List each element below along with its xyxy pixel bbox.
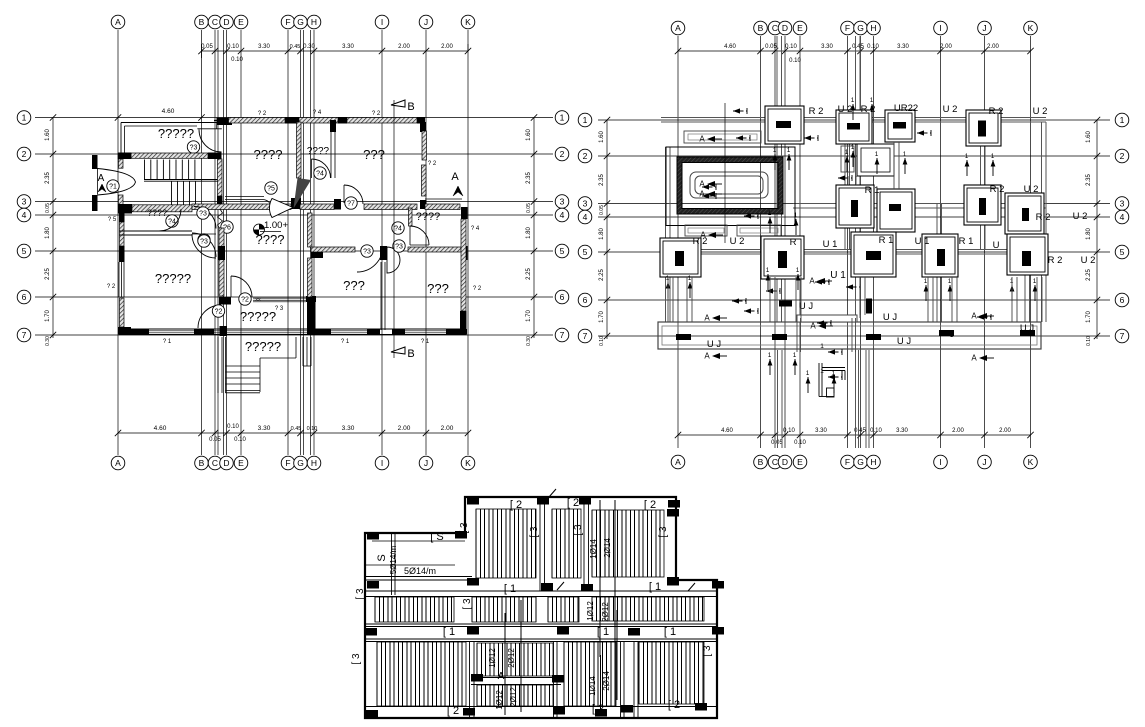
door 3a circle [197, 207, 209, 219]
slab column block [455, 531, 467, 539]
grid bubble E top (right plan) [793, 21, 807, 35]
grid bubble 5 left (left plan) [17, 244, 31, 258]
left wall window [118, 262, 120, 297]
grid row line 2 (right plan) [598, 155, 1110, 157]
svg-text:? 1: ? 1 [421, 339, 430, 345]
svg-text:1: 1 [560, 113, 565, 123]
wall band H-I hatch [364, 204, 417, 210]
wall band column G [291, 198, 301, 209]
svg-text:A: A [699, 135, 705, 144]
svg-text:?3: ?3 [363, 248, 371, 255]
wall x420 column top [420, 122, 426, 132]
svg-text:0.10: 0.10 [870, 428, 882, 434]
svg-text:? 2: ? 2 [107, 284, 116, 290]
grid bubble G top (right plan) [854, 21, 868, 35]
beam v bottom a [469, 641, 471, 718]
svg-text:?3: ?3 [395, 243, 403, 250]
svg-text:[ S: [ S [430, 531, 443, 543]
grid bubble I top (left plan) [375, 15, 389, 29]
svg-text:2Ø14: 2Ø14 [602, 671, 611, 691]
grid bubble K bottom (right plan) [1024, 455, 1038, 469]
svg-text:?3: ?3 [199, 210, 207, 217]
stair bottom wall hatch [132, 205, 192, 212]
arrow up 1 [846, 156, 848, 172]
svg-text:2Ø12: 2Ø12 [507, 648, 516, 668]
wing top inner [372, 540, 465, 542]
grid bubble 2 right (right plan) [1115, 149, 1129, 163]
svg-text:????: ???? [256, 232, 285, 247]
svg-text:2: 2 [560, 149, 565, 159]
door 2a circle [212, 305, 224, 317]
svg-text:?4: ?4 [394, 225, 402, 232]
svg-text:U 2: U 2 [838, 104, 853, 115]
grid bubble 1 right (right plan) [1115, 113, 1129, 127]
grid bubble G bottom (right plan) [854, 455, 868, 469]
svg-text:0.10: 0.10 [227, 44, 239, 50]
arrow up 1 [794, 359, 796, 375]
svg-text:H: H [311, 458, 317, 468]
grid bubble 2 left (left plan) [17, 147, 31, 161]
svg-text:R 2: R 2 [1036, 212, 1051, 223]
grid bubble 5 left (right plan) [578, 245, 592, 259]
dash arrow left [815, 281, 829, 283]
svg-text:[ 1: [ 1 [597, 626, 609, 638]
arrow up 1 [667, 282, 669, 298]
grid bubble 4 right (right plan) [1115, 210, 1129, 224]
svg-text:H: H [311, 17, 317, 27]
svg-text:1: 1 [768, 210, 772, 217]
door 014 circle 4 [392, 222, 404, 234]
door 3c circle [361, 245, 373, 257]
grid row line 7 (right plan) [598, 335, 1110, 337]
svg-text:S: S [376, 554, 388, 561]
dash arrow left [732, 300, 746, 302]
svg-text:?????: ????? [240, 309, 276, 324]
grid bubble H bottom (left plan) [307, 456, 321, 470]
P6 border [548, 597, 579, 622]
rebar line a [599, 500, 601, 657]
terrace circle 3 [187, 141, 199, 153]
grid bubble A bottom (left plan) [111, 456, 125, 470]
svg-text:D: D [782, 23, 788, 33]
svg-text:C: C [772, 23, 778, 33]
shaft wall projection lines C-D [217, 30, 219, 455]
top wall column F [285, 117, 299, 124]
bottom wall window c [331, 330, 367, 332]
svg-text:1.70: 1.70 [1086, 311, 1092, 323]
strip col F [844, 122, 846, 249]
wall y231 [119, 230, 192, 232]
section line B [393, 100, 395, 358]
stair arrows [807, 377, 809, 393]
door 014 arc [410, 226, 429, 245]
top wall hatch D-F [229, 118, 286, 124]
slab column block [667, 577, 679, 585]
grid bubble 3 left (right plan) [578, 197, 592, 211]
svg-text:U 2: U 2 [1033, 106, 1048, 117]
bottom wall col d [367, 329, 380, 335]
svg-text:?1: ?1 [109, 183, 117, 190]
arrow up 1 [852, 151, 854, 167]
rebar line f [616, 610, 618, 700]
svg-text:[ 1: [ 1 [649, 581, 661, 593]
arrow up 1 [797, 274, 799, 290]
grid bubble F top (right plan) [841, 21, 855, 35]
svg-text:4: 4 [583, 212, 588, 222]
svg-text:5: 5 [583, 247, 588, 257]
strip band row7 [658, 322, 1041, 349]
svg-text:2.00: 2.00 [999, 428, 1011, 434]
top exterior wall [214, 120, 424, 122]
slab hatch P7 [592, 597, 703, 621]
svg-text:U 2: U 2 [1024, 184, 1039, 195]
right wall column bottom [460, 311, 467, 334]
slab hatch P9b [477, 685, 549, 706]
svg-text:???: ??? [343, 278, 365, 293]
door 2b circle [239, 293, 251, 305]
svg-text:3: 3 [22, 197, 27, 207]
svg-text:3.30: 3.30 [896, 428, 908, 434]
left wall column r5 [119, 246, 125, 262]
svg-text:[ 2: [ 2 [567, 497, 579, 509]
section arrow A [979, 355, 987, 361]
svg-text:A: A [699, 190, 705, 199]
door 2a arc [198, 305, 221, 328]
svg-text:U J: U J [897, 336, 912, 347]
beam v bottom d [633, 641, 635, 718]
footing R2 row3 J [964, 185, 1001, 225]
dash arrow left [817, 322, 831, 324]
svg-text:R 2: R 2 [989, 106, 1004, 117]
slab hatch P9 [477, 643, 549, 676]
svg-text:?????: ????? [245, 339, 281, 354]
P9 border [477, 643, 553, 676]
core bottom strip2 [737, 225, 781, 236]
svg-text:0.05: 0.05 [45, 203, 51, 213]
svg-text:1.60: 1.60 [45, 129, 51, 141]
section arrow A [712, 315, 720, 321]
slab column block [668, 500, 680, 508]
footing U2 row1 F [836, 110, 872, 144]
svg-text:R 2: R 2 [1048, 255, 1063, 266]
svg-text:1: 1 [806, 370, 810, 377]
strip band notch [797, 315, 857, 322]
arrow up 1 [769, 359, 771, 375]
svg-text:1.70: 1.70 [45, 310, 51, 322]
core inner racetrack [690, 172, 768, 198]
wall band column J2 [420, 200, 427, 209]
section arrow A [707, 191, 715, 197]
svg-text:F: F [285, 17, 290, 27]
left wall hatch a [120, 222, 125, 246]
grid row line 5 (left plan) [35, 250, 553, 252]
arrow up 1 [904, 158, 906, 174]
door 4 arc [312, 159, 331, 178]
svg-text:0.10: 0.10 [794, 440, 806, 446]
svg-text:A: A [704, 352, 710, 361]
svg-text:I: I [939, 457, 941, 467]
svg-text:2: 2 [22, 149, 27, 159]
grid bubble F top (left plan) [281, 15, 295, 29]
svg-text:[ 2: [ 2 [510, 499, 522, 511]
svg-text:5: 5 [1120, 247, 1125, 257]
strip col K [1024, 203, 1026, 322]
slab column block [471, 674, 483, 682]
strip col CD [776, 36, 778, 322]
svg-text:7: 7 [22, 330, 27, 340]
svg-text:xx: xx [256, 297, 262, 303]
arrow up 1 [966, 160, 968, 176]
svg-text:K: K [465, 17, 471, 27]
svg-text:0.30: 0.30 [303, 44, 315, 50]
svg-text:?????: ????? [155, 271, 191, 286]
dash arrow left [744, 215, 758, 217]
svg-text:3.30: 3.30 [342, 44, 354, 50]
grid line I (right plan) [940, 36, 942, 448]
dash arrow left [744, 310, 758, 312]
slab hatch P5 [472, 597, 536, 622]
svg-text:1.80: 1.80 [599, 228, 605, 240]
grid bubble C bottom (left plan) [208, 456, 222, 470]
svg-text:0.10: 0.10 [789, 58, 801, 64]
wall H lower hatch [308, 258, 313, 297]
top wall hatch F-H [299, 118, 338, 124]
svg-text:1.60: 1.60 [599, 131, 605, 143]
band column bar [772, 334, 787, 340]
footing R2 row1 D [765, 106, 804, 144]
grid line F (right plan) [847, 36, 849, 448]
grid bubble 4 right (left plan) [555, 208, 569, 222]
svg-text:0.10: 0.10 [785, 44, 797, 50]
svg-text:A: A [675, 23, 681, 33]
arrow up 1 [767, 274, 769, 290]
svg-text:0.45: 0.45 [854, 428, 866, 434]
wall row6 column [306, 296, 316, 302]
svg-text:4.60: 4.60 [154, 425, 167, 432]
svg-text:1: 1 [965, 153, 969, 160]
svg-text:1.60: 1.60 [526, 129, 532, 141]
strip col GH [855, 36, 857, 318]
grid bubble I bottom (right plan) [934, 455, 948, 469]
svg-text:2Ø14: 2Ø14 [603, 538, 612, 558]
grid bubble 6 right (right plan) [1115, 293, 1129, 307]
grid bubble C top (right plan) [768, 21, 782, 35]
svg-text:A: A [971, 354, 977, 363]
stub below F10 [667, 277, 669, 322]
wall y249 left hatch [311, 247, 355, 252]
svg-text:0.05: 0.05 [599, 205, 605, 215]
section arrow A [707, 181, 715, 187]
arrow up 1 [852, 104, 854, 120]
svg-text:6: 6 [560, 292, 565, 302]
svg-text:U 2: U 2 [943, 104, 958, 115]
svg-text:1: 1 [583, 115, 588, 125]
svg-text:0.45: 0.45 [290, 44, 301, 50]
svg-text:[ 3: [ 3 [529, 526, 540, 538]
svg-text:A: A [115, 458, 121, 468]
grid row line 6 (left plan) [35, 296, 553, 298]
beam v2 top block [583, 497, 585, 591]
svg-text:7: 7 [1120, 331, 1125, 341]
rebar line d [520, 600, 522, 712]
grid line H (left plan) [313, 30, 315, 455]
hall left wall hatch [219, 228, 224, 296]
slab column block [463, 708, 475, 716]
svg-text:1: 1 [1120, 115, 1125, 125]
slab column block [367, 581, 379, 589]
grid bubble 6 left (left plan) [17, 290, 31, 304]
stair right wall hatch [218, 159, 223, 196]
svg-text:1: 1 [796, 267, 800, 274]
grid line K (left plan) [467, 30, 469, 455]
right wall hatch [461, 219, 466, 311]
svg-text:3: 3 [1120, 199, 1125, 209]
strip stub below F2 [841, 146, 854, 172]
svg-text:D: D [782, 457, 788, 467]
grid bubble D bottom (right plan) [778, 455, 792, 469]
grid bubble 6 left (right plan) [578, 293, 592, 307]
svg-text:1: 1 [870, 97, 874, 104]
svg-text:2.35: 2.35 [45, 172, 51, 184]
dash arrow left [977, 316, 991, 318]
svg-text:F: F [285, 458, 290, 468]
svg-text:C: C [212, 17, 218, 27]
footing R2 row1 H [885, 110, 915, 142]
P1 border [476, 509, 536, 578]
slab hatch P10 [564, 642, 615, 706]
svg-text:R 1: R 1 [865, 185, 880, 196]
grid line G (left plan) [300, 30, 302, 455]
svg-text:0.10: 0.10 [599, 336, 605, 346]
stair top wall column left [118, 153, 132, 160]
stair top wall hatch [131, 153, 208, 158]
svg-text:F: F [845, 23, 850, 33]
room 014 left wall [409, 208, 413, 226]
slab column block [537, 497, 549, 505]
grid bubble D top (right plan) [778, 21, 792, 35]
grid line I (left plan) [381, 30, 383, 455]
level marker [254, 224, 265, 235]
svg-text:1: 1 [22, 113, 27, 123]
slash a [549, 489, 556, 497]
svg-text:2: 2 [1120, 151, 1125, 161]
grid row line 6 (right plan) [598, 299, 1110, 301]
svg-text:1: 1 [948, 278, 952, 285]
door 3a arc [194, 207, 216, 229]
dash arrow left [766, 290, 780, 292]
svg-text:K: K [465, 458, 471, 468]
beam mid b [365, 638, 717, 640]
grid bubble H top (right plan) [867, 21, 881, 35]
band column bar [866, 334, 881, 340]
svg-text:U J: U J [707, 339, 722, 350]
svg-text:5: 5 [560, 246, 565, 256]
svg-text:2.35: 2.35 [1086, 174, 1092, 186]
grid bubble H bottom (right plan) [867, 455, 881, 469]
grid bubble 7 left (left plan) [17, 328, 31, 342]
hall left wall column a [218, 246, 225, 260]
grid bubble B bottom (right plan) [754, 455, 768, 469]
grid row line 1 (left plan) [35, 117, 553, 119]
svg-text:B: B [407, 348, 414, 360]
stairwell left wall lower [118, 195, 123, 206]
svg-text:1.70: 1.70 [599, 311, 605, 323]
svg-text:E: E [238, 17, 244, 27]
grid bubble J bottom (right plan) [978, 455, 992, 469]
top dimension line (right plan) [678, 50, 1031, 52]
svg-text:A: A [700, 231, 706, 240]
grid bubble E bottom (left plan) [234, 456, 248, 470]
section arrow A [818, 323, 826, 329]
svg-text:G: G [297, 458, 304, 468]
svg-text:1: 1 [903, 151, 907, 158]
svg-text:?4: ?4 [316, 170, 324, 177]
slab column block [667, 509, 679, 517]
beam mid top [365, 590, 717, 592]
top dimension line (left plan) [202, 50, 469, 52]
grid bubble B bottom (left plan) [195, 456, 209, 470]
svg-text:? 4: ? 4 [471, 226, 480, 232]
svg-text:? 4: ? 4 [313, 110, 322, 116]
wing beam v [391, 534, 393, 595]
svg-text:3.30: 3.30 [815, 428, 827, 434]
wall band G-H hatch [300, 204, 334, 210]
arrow up 1 [1011, 285, 1013, 301]
grid line D (right plan) [784, 36, 786, 448]
arrow up 1 [949, 285, 951, 301]
svg-text:1.80: 1.80 [45, 227, 51, 239]
arrow up 1 [774, 154, 776, 170]
grid row line 5 (right plan) [598, 251, 1110, 253]
svg-text:I: I [939, 23, 941, 33]
top wall column J [417, 117, 425, 124]
wall band B-F hatch [192, 204, 291, 210]
band column bar [939, 330, 954, 336]
svg-text:2.00: 2.00 [398, 425, 411, 432]
bottom wall line [119, 328, 466, 330]
svg-text:R 1: R 1 [879, 235, 894, 246]
svg-text:I: I [381, 17, 383, 27]
slab column block [621, 705, 633, 713]
P2 border [552, 509, 581, 578]
svg-text:H: H [870, 23, 876, 33]
slab column block [581, 584, 593, 592]
section line A-A [724, 103, 726, 243]
svg-text:1: 1 [688, 275, 692, 282]
left wall column r4 [119, 213, 125, 222]
grid bubble C bottom (right plan) [768, 455, 782, 469]
staircase treads [144, 160, 146, 180]
bottom dimension line (right plan) [678, 434, 1031, 436]
svg-text:? 2: ? 2 [258, 111, 267, 117]
slab hatch P3 [592, 510, 660, 577]
section arrow A [817, 278, 825, 284]
svg-text:R 1: R 1 [959, 236, 974, 247]
corridor door arc [159, 209, 181, 231]
svg-text:0.05: 0.05 [526, 203, 532, 213]
entrance double door [98, 169, 136, 196]
svg-text:G: G [857, 23, 864, 33]
grid bubble D top (left plan) [220, 15, 234, 29]
dash arrow left [702, 195, 716, 197]
slab hatch P4 [375, 597, 452, 622]
footing R2 row3 K [1005, 193, 1044, 234]
svg-text:3.30: 3.30 [342, 425, 355, 432]
svg-text:4.60: 4.60 [721, 428, 733, 434]
wall x420 hatch b [422, 165, 427, 196]
svg-text:2.25: 2.25 [599, 269, 605, 281]
bottom wall col a [119, 329, 149, 335]
